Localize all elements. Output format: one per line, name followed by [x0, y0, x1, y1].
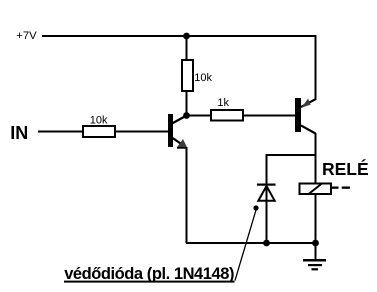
- svg-text:RELÉ: RELÉ: [322, 158, 369, 179]
- svg-text:+7V: +7V: [16, 30, 37, 42]
- svg-text:IN: IN: [10, 123, 28, 143]
- svg-text:védődióda (pl. 1N4148): védődióda (pl. 1N4148): [64, 265, 234, 283]
- svg-text:10k: 10k: [90, 114, 108, 126]
- svg-text:10k: 10k: [194, 72, 212, 84]
- svg-text:1k: 1k: [217, 97, 229, 109]
